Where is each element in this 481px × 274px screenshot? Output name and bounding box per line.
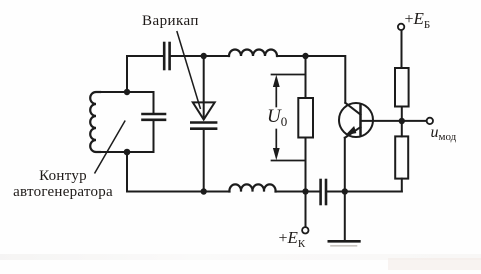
wire bottom rail right xyxy=(327,191,402,193)
ground xyxy=(329,240,360,243)
U0 tick bottom xyxy=(272,160,306,162)
node base divider xyxy=(399,118,405,124)
node tank top xyxy=(124,89,130,95)
U0 arrow line xyxy=(275,80,277,107)
node varactor bottom xyxy=(201,188,207,194)
transistor VT1 circle xyxy=(339,103,373,137)
varactor VD capacitor bar xyxy=(191,127,216,130)
wire bottom rail left xyxy=(127,191,230,193)
wire Rb1 to base node xyxy=(401,107,403,122)
inductor L tank coil xyxy=(90,92,100,152)
terminal u_mod circle xyxy=(427,118,433,124)
node R1 top xyxy=(302,53,308,59)
label +Eb xyxy=(405,9,431,31)
capacitor Ck tank branch xyxy=(153,92,155,113)
transistor VT1 base bar xyxy=(359,105,362,134)
terminal +Ek circle xyxy=(302,227,308,233)
label pointer kontur xyxy=(95,121,126,174)
label Контур автогенератора xyxy=(0,169,126,200)
wire choke to node R1 xyxy=(277,55,306,57)
resistor Rb1 body xyxy=(395,68,409,107)
wire Rb2 to bottom rail xyxy=(401,179,403,192)
wire node R1 to collector corner xyxy=(306,56,346,103)
transistor VT1 collector diagonal xyxy=(345,103,360,115)
scan smudge bottom xyxy=(0,254,481,260)
label +Ek xyxy=(279,228,306,250)
label U0 xyxy=(267,106,287,130)
transistor VT1 emitter diagonal xyxy=(345,127,361,138)
inductor L2 bottom choke xyxy=(229,184,275,191)
resistor R1 wire top xyxy=(305,56,307,98)
U0 tick top xyxy=(272,74,306,76)
wire tank bottom drop xyxy=(126,152,128,192)
wire +Eb to Rb1 xyxy=(401,30,403,68)
wire top rail left: node to coupling cap xyxy=(127,55,163,57)
transistor VT1 emitter arrow xyxy=(347,127,356,134)
label Варикап xyxy=(142,13,199,30)
varactor VD diode triangle xyxy=(193,102,215,119)
label u_mod xyxy=(431,124,457,143)
resistor R1 body xyxy=(298,98,313,138)
resistor Rb2 body xyxy=(395,136,408,178)
node +Ek xyxy=(302,188,308,194)
wire base node to Rb2 xyxy=(401,121,403,136)
wire coupling cap to varactor node xyxy=(171,55,229,57)
varactor VD cathode bar xyxy=(191,121,216,124)
node emitter xyxy=(342,188,348,194)
node tank bottom xyxy=(124,149,131,156)
wire emitter down xyxy=(344,138,346,241)
capacitor Ce bypass plates xyxy=(321,180,326,204)
transistor VT1 base lead xyxy=(361,120,427,122)
wire tank bottom bar xyxy=(100,151,154,153)
capacitor Cc coupling plates xyxy=(164,43,169,69)
node varactor top xyxy=(201,53,207,59)
resistor R1 wire bottom xyxy=(305,138,307,192)
U0 arrowheads xyxy=(273,75,280,160)
varactor VD branch wire top xyxy=(203,56,205,119)
wire bottom rail mid xyxy=(276,191,320,193)
node dots xyxy=(124,53,405,195)
wire tank top bar xyxy=(100,91,154,93)
wire tank top drop xyxy=(126,56,128,92)
label pointer varicap xyxy=(177,31,201,109)
wire +Ek stub xyxy=(305,192,307,227)
varactor VD branch wire bottom xyxy=(203,130,205,192)
inductor L1 top choke xyxy=(229,50,277,56)
terminal +Eb circle xyxy=(398,24,404,30)
